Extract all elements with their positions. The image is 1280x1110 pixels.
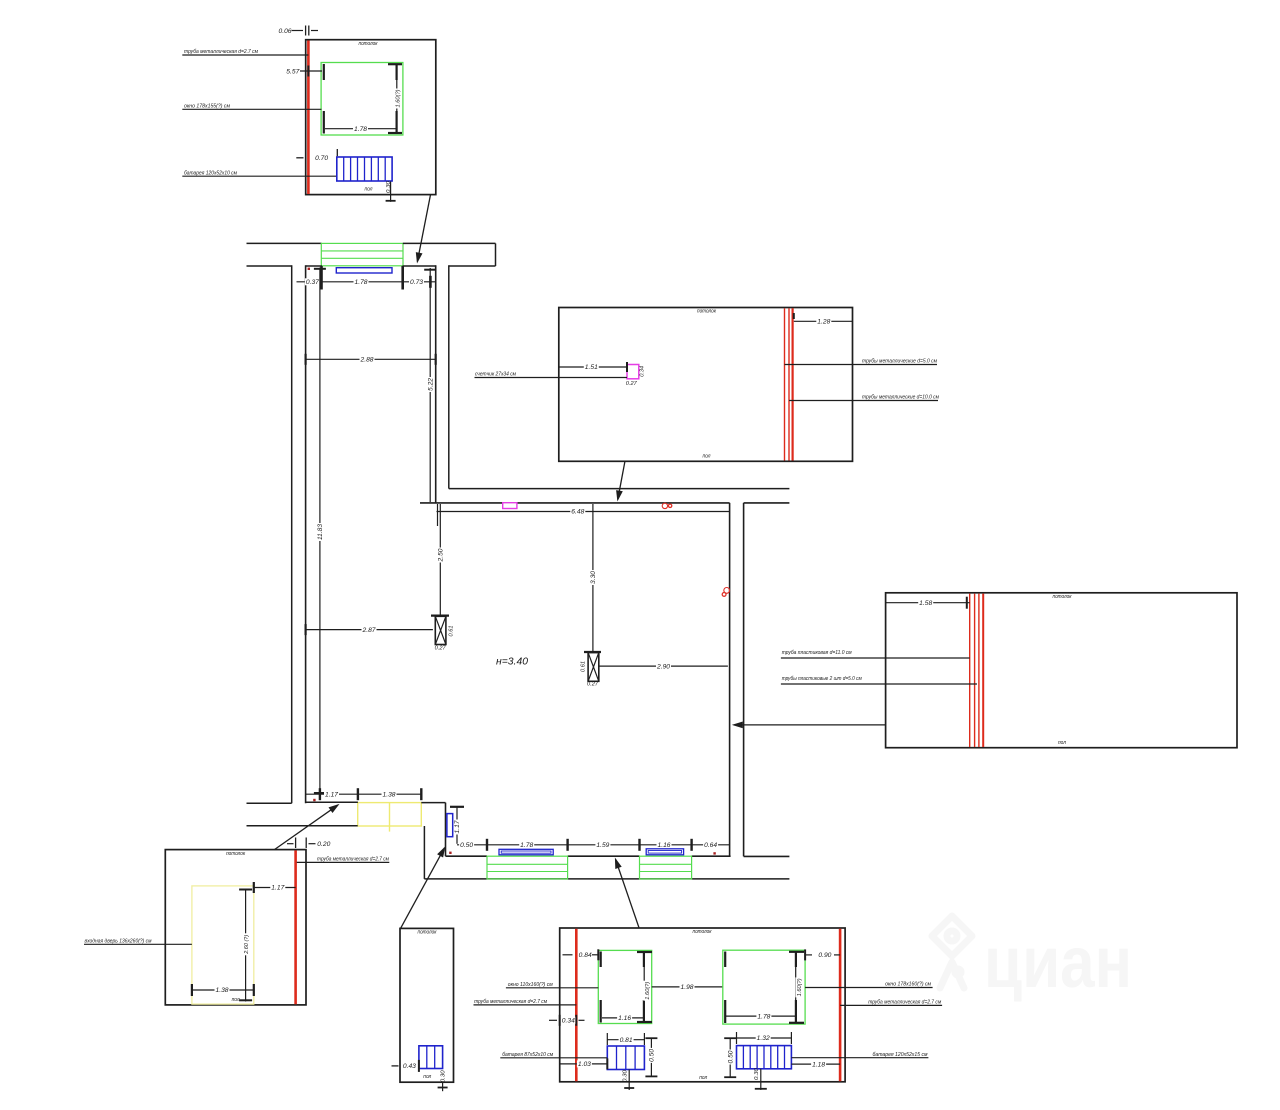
wall main room right [729, 503, 731, 856]
door yellow db4 [192, 886, 254, 1004]
wall corridor top [306, 265, 436, 267]
svg-text:1.60(?): 1.60(?) [797, 978, 803, 996]
svg-text:1.78: 1.78 [520, 842, 534, 849]
svg-text:2.50: 2.50 [438, 548, 445, 563]
wall below wardrobe vertical [423, 826, 425, 879]
dimension 0.70 db1 [296, 155, 328, 162]
wardrobe yellow plan [358, 803, 422, 832]
svg-text:2.90: 2.90 [656, 663, 671, 670]
leader pipes d5 db2 [785, 359, 938, 365]
arrow db3 to plan [734, 724, 886, 726]
leader pipes d10 db2 [789, 395, 939, 401]
duct symbol 2 [584, 652, 601, 681]
wall vestibule bottom left [247, 825, 358, 827]
dimension 1.16 db6 [602, 1014, 643, 1022]
svg-text:1.17: 1.17 [325, 791, 339, 798]
dimension 0.20 db4 [287, 838, 331, 849]
svg-text:входная дверь 136х260(?) см: входная дверь 136х260(?) см [85, 939, 152, 945]
arrow db1 to plan [417, 195, 430, 262]
svg-text:1.03: 1.03 [578, 1061, 592, 1068]
wall exterior bottom [424, 878, 789, 880]
svg-text:0.34: 0.34 [562, 1018, 576, 1025]
svg-text:0.50: 0.50 [649, 1048, 656, 1062]
dimension 0.30 db5 [438, 1069, 448, 1091]
svg-text:1.59: 1.59 [596, 842, 610, 849]
svg-text:потолок: потолок [1053, 594, 1072, 600]
dimension 5.22 [424, 268, 436, 502]
svg-text:0.30: 0.30 [754, 1067, 760, 1080]
svg-text:окно 178х155(?) см: окно 178х155(?) см [184, 104, 230, 110]
dimension 2.88 [306, 354, 436, 365]
pipes red db3 [970, 594, 984, 747]
radiator elevation db6 right [737, 1046, 792, 1069]
dimension 1.58 db3 [886, 597, 970, 609]
wall vestibule top left [306, 801, 358, 803]
svg-text:1.32: 1.32 [757, 1035, 771, 1042]
red circles right wall [722, 588, 729, 597]
svg-text:0.27: 0.27 [587, 682, 599, 688]
dimension 0.43 db5 [392, 1060, 419, 1072]
svg-text:0.30: 0.30 [441, 1069, 447, 1082]
svg-text:потолок: потолок [697, 309, 716, 315]
window corner marks db6 right [725, 952, 804, 1024]
dimension 0.06 db1 [279, 26, 319, 36]
arrow db2 to plan [618, 462, 625, 500]
svg-text:0.61: 0.61 [449, 626, 455, 637]
node red dot vestibule [313, 799, 315, 801]
window plan bottom 2 [640, 856, 692, 879]
svg-text:0.30: 0.30 [386, 180, 392, 193]
svg-text:1.17: 1.17 [271, 885, 285, 892]
leader pipe db4 [297, 857, 390, 863]
dimension 1.03 db6 [560, 1058, 608, 1069]
pipe red db4 [294, 850, 297, 1004]
leader radiator db1 [182, 170, 337, 176]
node red dot bottom left [449, 852, 451, 854]
dimension 11.83 [314, 268, 326, 795]
svg-text:батарея 120х52х10 см: батарея 120х52х10 см [184, 170, 237, 176]
leader pipes 2x d5 db3 [781, 676, 977, 684]
svg-text:батарея 87х52х10 см: батарея 87х52х10 см [502, 1052, 553, 1058]
detail box 4 frame [165, 850, 306, 1005]
dimension 1.18 db6 [791, 1061, 840, 1069]
svg-text:1.78: 1.78 [354, 126, 368, 133]
svg-text:0.27: 0.27 [626, 381, 638, 387]
svg-text:0.73: 0.73 [410, 279, 424, 286]
svg-text:пол: пол [1058, 740, 1066, 746]
svg-text:1.16: 1.16 [658, 842, 672, 849]
dimension 1.78 window db1 [325, 125, 396, 133]
dimension 1.60 db6 left [643, 953, 651, 1015]
svg-text:потолок: потолок [418, 930, 437, 936]
svg-text:трубы металлические d=5.0 см: трубы металлические d=5.0 см [862, 359, 937, 365]
radiator plan corridor top [336, 268, 392, 273]
dimension 0.34 db6 [549, 1015, 585, 1026]
window jamb marks [322, 266, 403, 290]
tick above radiator db1 [336, 149, 338, 156]
leader pipe d11 db3 [781, 650, 970, 658]
svg-text:0.27: 0.27 [435, 646, 447, 652]
dimension 1.28 db2 [794, 313, 853, 326]
svg-text:1.18: 1.18 [812, 1061, 826, 1068]
dimension 1.17 db4 [254, 882, 296, 893]
dimension 1.78 db6 [726, 1013, 795, 1021]
svg-text:0.37: 0.37 [306, 279, 320, 286]
meter box magenta db2 [627, 365, 639, 379]
detail box 6 frame [560, 928, 845, 1082]
window plan bottom 1 [487, 856, 568, 879]
svg-text:1.16: 1.16 [618, 1015, 632, 1022]
dimension 6.48 [437, 504, 730, 526]
svg-text:0.50: 0.50 [727, 1050, 734, 1064]
svg-text:труба пластиковая d=11.0 см: труба пластиковая d=11.0 см [782, 650, 852, 656]
leader window db1 [182, 104, 321, 110]
dimension 0.30 db6 right [754, 1067, 767, 1090]
svg-text:0.84: 0.84 [579, 952, 593, 959]
wall left neighbour bottom [247, 802, 292, 804]
svg-text:0.50: 0.50 [460, 842, 474, 849]
dimension 2.50 [437, 504, 445, 616]
leader pipe left db6 [474, 999, 577, 1005]
svg-text:1.17: 1.17 [454, 820, 461, 834]
svg-text:2.87: 2.87 [361, 627, 376, 634]
pipe red right db6 [839, 929, 842, 1081]
window elevation db6 left [598, 950, 651, 1023]
dimension 1.98 db6 [652, 983, 723, 991]
window corner marks db1 [324, 64, 402, 134]
svg-text:0.43: 0.43 [403, 1063, 417, 1070]
pipe red line db1 [307, 41, 310, 195]
dimension 1.51 db2 [559, 362, 627, 372]
svg-text:1.51: 1.51 [585, 364, 598, 371]
red circles top wall [662, 503, 672, 508]
wall left of bottom windows [445, 803, 447, 857]
svg-text:циан: циан [984, 923, 1132, 1003]
svg-text:трубы пластиковые 2 шт d=5.0 с: трубы пластиковые 2 шт d=5.0 см [782, 676, 862, 682]
dimension 1.32 db6 [737, 1032, 792, 1044]
leader window right db6 [805, 982, 933, 988]
wall shaft right [744, 503, 790, 857]
svg-text:1.58: 1.58 [919, 600, 933, 607]
radiator plan bottom 1 [499, 849, 553, 855]
svg-text:0.90: 0.90 [818, 952, 832, 959]
dimension 0.30 db6 left [623, 1069, 635, 1090]
arrow db5 to plan [401, 848, 445, 928]
dimension row bottom wall 0.50 1.78 1.59 1.16 0.64 [457, 839, 730, 851]
wall main room bottom segments [446, 855, 731, 857]
detail box 3 frame [886, 593, 1237, 748]
dimension 0.50 db6 right radiator [724, 1038, 736, 1077]
dimension 0.37 / 1.78 / 0.73 corridor top [297, 276, 436, 288]
svg-text:0.81: 0.81 [620, 1037, 633, 1044]
svg-text:1.28: 1.28 [817, 319, 831, 326]
window elevation db6 right [723, 950, 805, 1024]
svg-text:5.57: 5.57 [286, 68, 300, 75]
svg-text:1.60(?): 1.60(?) [645, 982, 651, 1000]
dimension 5.57 db1 [286, 66, 322, 77]
radiator plan left vertical [447, 814, 453, 837]
svg-text:потолок: потолок [693, 929, 712, 935]
dimension 0.30 db1 [386, 180, 396, 202]
svg-text:потолок: потолок [226, 851, 245, 857]
dimension 2.90 [599, 663, 728, 671]
node red dot bottom right [713, 852, 715, 854]
window corner marks db6 left [601, 952, 652, 1023]
svg-text:1.98: 1.98 [681, 984, 695, 991]
radiator elevation db6 left [607, 1046, 644, 1070]
wall neighbour room right of corridor [449, 265, 496, 488]
wall top-left inner [247, 265, 292, 267]
arrow db4 to plan [274, 805, 337, 850]
arrow db6 to plan [616, 859, 640, 928]
dimension 1.60 db6 right [795, 953, 803, 1013]
wall exterior above main room [449, 488, 790, 490]
radiator elevation db1 [337, 157, 392, 181]
svg-text:0.64: 0.64 [704, 842, 718, 849]
leader window left db6 [506, 982, 598, 988]
duct symbol 1 [431, 616, 449, 645]
dimension 0.50 db6 left radiator [645, 1038, 657, 1076]
svg-text:батарея 120х52х15 см: батарея 120х52х15 см [873, 1052, 928, 1058]
dimension 1.17 / 1.38 vestibule [306, 788, 422, 800]
wall corridor right [435, 265, 437, 503]
wall left neighbour vertical [291, 265, 293, 803]
window plan top (corridor) [321, 243, 403, 265]
svg-text:трубы металлические d=10.0 см: трубы металлические d=10.0 см [862, 395, 939, 401]
svg-text:2.88: 2.88 [359, 357, 374, 364]
dimension 1.38 db4 [192, 984, 254, 996]
svg-text:0.20: 0.20 [317, 841, 331, 848]
svg-text:1.78: 1.78 [355, 279, 369, 286]
svg-text:пол: пол [365, 187, 373, 193]
svg-text:1.78: 1.78 [757, 1013, 771, 1020]
svg-text:1.60(?): 1.60(?) [395, 89, 401, 107]
leader radiator right db6 [791, 1052, 928, 1058]
detail box 2 frame [559, 308, 853, 462]
svg-text:труба металлическая d=2.7 см: труба металлическая d=2.7 см [184, 49, 258, 55]
svg-text:н=3.40: н=3.40 [496, 657, 528, 668]
leader radiator left db6 [500, 1052, 607, 1058]
detail box 5 frame [400, 928, 454, 1082]
svg-text:6.48: 6.48 [571, 509, 585, 516]
node red dot corridor top [308, 268, 310, 270]
svg-text:окно 110х160(?) см: окно 110х160(?) см [508, 982, 553, 988]
svg-text:пол: пол [699, 1075, 707, 1081]
leader meter db2 [475, 372, 628, 378]
pipe red left db6 [575, 929, 578, 1081]
svg-text:3.30: 3.30 [590, 570, 597, 584]
detail box 1 frame [306, 40, 436, 195]
radiator plan bottom 2 [646, 849, 683, 855]
svg-text:пол: пол [703, 453, 711, 459]
svg-text:0.70: 0.70 [315, 155, 329, 162]
dimension 2.60 db4 [239, 889, 252, 1002]
dimension 0.81 db6 [607, 1033, 644, 1045]
svg-text:пол: пол [232, 997, 240, 1003]
svg-text:0.61: 0.61 [580, 661, 586, 672]
svg-text:труба металлическая d=2.7 см: труба металлическая d=2.7 см [317, 857, 389, 863]
svg-text:0.30: 0.30 [623, 1069, 629, 1082]
svg-text:2.60 (?): 2.60 (?) [244, 935, 250, 955]
svg-text:труба металлическая d=2.7 см: труба металлическая d=2.7 см [474, 999, 547, 1005]
svg-text:1.38: 1.38 [216, 987, 230, 994]
radiator elevation db5 [419, 1046, 443, 1069]
wall main room top [420, 502, 789, 504]
watermark cian logo [932, 916, 972, 988]
leader pipe db1 [182, 49, 308, 55]
svg-text:0.34: 0.34 [640, 366, 646, 377]
svg-text:0.06: 0.06 [279, 28, 293, 35]
window elevation db1 [321, 63, 403, 136]
svg-text:счетчик 27х34 см: счетчик 27х34 см [475, 372, 516, 378]
svg-text:потолок: потолок [359, 41, 378, 47]
svg-text:1.38: 1.38 [383, 791, 397, 798]
dimension 3.30 [589, 504, 597, 653]
meter magenta on top wall [503, 503, 517, 509]
dimension 1.60 window db1 [394, 65, 402, 132]
wall top exterior left of window [247, 242, 322, 244]
wall vestibule top right [421, 802, 445, 804]
leader door db4 [84, 939, 192, 945]
svg-text:окно 178х160(?) см: окно 178х160(?) см [885, 982, 931, 988]
pipes red db2 [785, 308, 793, 460]
dimension 2.87 [306, 624, 433, 635]
wall top exterior right of window [403, 243, 496, 266]
wall corridor left [305, 265, 307, 803]
leader pipe right db6 [840, 1000, 942, 1006]
svg-text:труба металлическая d=2.7 см: труба металлическая d=2.7 см [868, 1000, 941, 1006]
dimension 1.17 radiator [450, 806, 464, 844]
svg-text:пол: пол [423, 1074, 431, 1080]
svg-text:11.83: 11.83 [317, 523, 324, 540]
svg-text:5.22: 5.22 [427, 377, 434, 391]
dimension 0.90 db6 [805, 949, 840, 960]
dimension 0.84 db6 [563, 949, 599, 960]
